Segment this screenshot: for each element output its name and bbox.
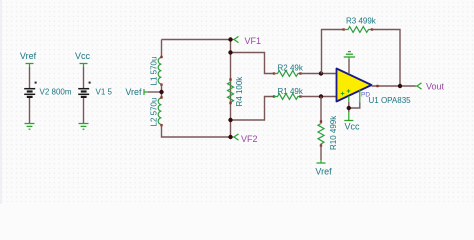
wire — [83, 67, 85, 88]
svg-text:L2 570u: L2 570u — [150, 98, 159, 127]
wire — [29, 98, 31, 123]
wire — [29, 67, 31, 88]
wire (feedback left vertical) — [322, 30, 344, 74]
junction (R2 branch) — [228, 50, 232, 54]
svg-text:L1 570u: L1 570u — [150, 57, 159, 86]
node Vcc (below op-amp) — [344, 112, 360, 131]
wire — [320, 145, 322, 160]
svg-text:V2 800m: V2 800m — [40, 88, 72, 97]
wire (rect top) — [162, 39, 231, 41]
resistor R4 100k — [228, 76, 245, 107]
wire — [301, 73, 337, 75]
node VF1 — [231, 36, 262, 46]
junction — [319, 71, 323, 75]
ground (above op-amp, inverted) — [344, 52, 355, 59]
junction — [319, 94, 323, 98]
svg-text:Vref: Vref — [20, 51, 37, 61]
plus marks — [341, 92, 345, 96]
inductor L1 570u — [150, 56, 163, 86]
node VF2 — [231, 134, 258, 144]
wire (left col lower + rect bottom) — [162, 125, 231, 137]
svg-text:Vcc: Vcc — [75, 51, 91, 61]
resistor R10 499k — [318, 97, 338, 151]
svg-text:R3 499k: R3 499k — [346, 17, 377, 26]
svg-text:V1 5: V1 5 — [96, 88, 113, 97]
svg-text:U1 OPA835: U1 OPA835 — [369, 96, 412, 105]
node Vref (source terminal label) — [20, 51, 37, 67]
voltage source V2 800m — [24, 82, 72, 97]
wire — [301, 96, 337, 98]
wire (branch to R2) — [231, 53, 274, 74]
junction — [159, 90, 163, 94]
resistor R3 499k — [343, 17, 377, 33]
svg-text:R1 49k: R1 49k — [278, 87, 304, 96]
ground — [25, 124, 35, 130]
ground — [79, 124, 89, 130]
resistor R2 49k — [273, 63, 304, 76]
wire (V+ pin down) — [348, 96, 350, 102]
op-amp U1 OPA835 — [337, 69, 412, 105]
wire — [148, 91, 162, 93]
wire — [83, 98, 85, 123]
svg-text:Vout: Vout — [426, 81, 445, 91]
svg-text:VF1: VF1 — [245, 36, 262, 46]
svg-text:Vcc: Vcc — [345, 121, 361, 131]
node Vout — [416, 81, 445, 91]
svg-text:R4 100k: R4 100k — [235, 76, 244, 107]
wire (V- pin up) — [348, 59, 350, 74]
junction VF2 — [228, 135, 232, 139]
node Vref (middle input) — [125, 87, 148, 97]
left edge strip — [0, 0, 2, 204]
node Vcc (source terminal label) — [75, 51, 91, 67]
voltage source V1 5 — [78, 82, 112, 97]
wire (output) — [372, 85, 416, 87]
wire (right col R4) — [230, 40, 232, 138]
svg-text:VF2: VF2 — [241, 134, 258, 144]
svg-text:Vref: Vref — [315, 167, 332, 177]
svg-text:Vref: Vref — [125, 87, 142, 97]
resistor R1 49k — [273, 87, 304, 100]
inductor L2 570u — [150, 96, 163, 126]
svg-text:R10 499k: R10 499k — [329, 115, 338, 150]
junction — [398, 84, 402, 88]
junction — [228, 118, 232, 122]
wire (branch to R1) — [231, 97, 274, 121]
junction VF1 — [228, 37, 232, 41]
junction — [347, 106, 351, 110]
wire (left col upper) — [161, 40, 163, 58]
svg-text:R2 49k: R2 49k — [278, 63, 304, 72]
wire (PD pin down) — [359, 90, 361, 102]
wire (feedback right vertical) — [372, 30, 400, 87]
node Vref (R10 bottom terminal) — [315, 160, 332, 177]
wire — [161, 84, 163, 98]
